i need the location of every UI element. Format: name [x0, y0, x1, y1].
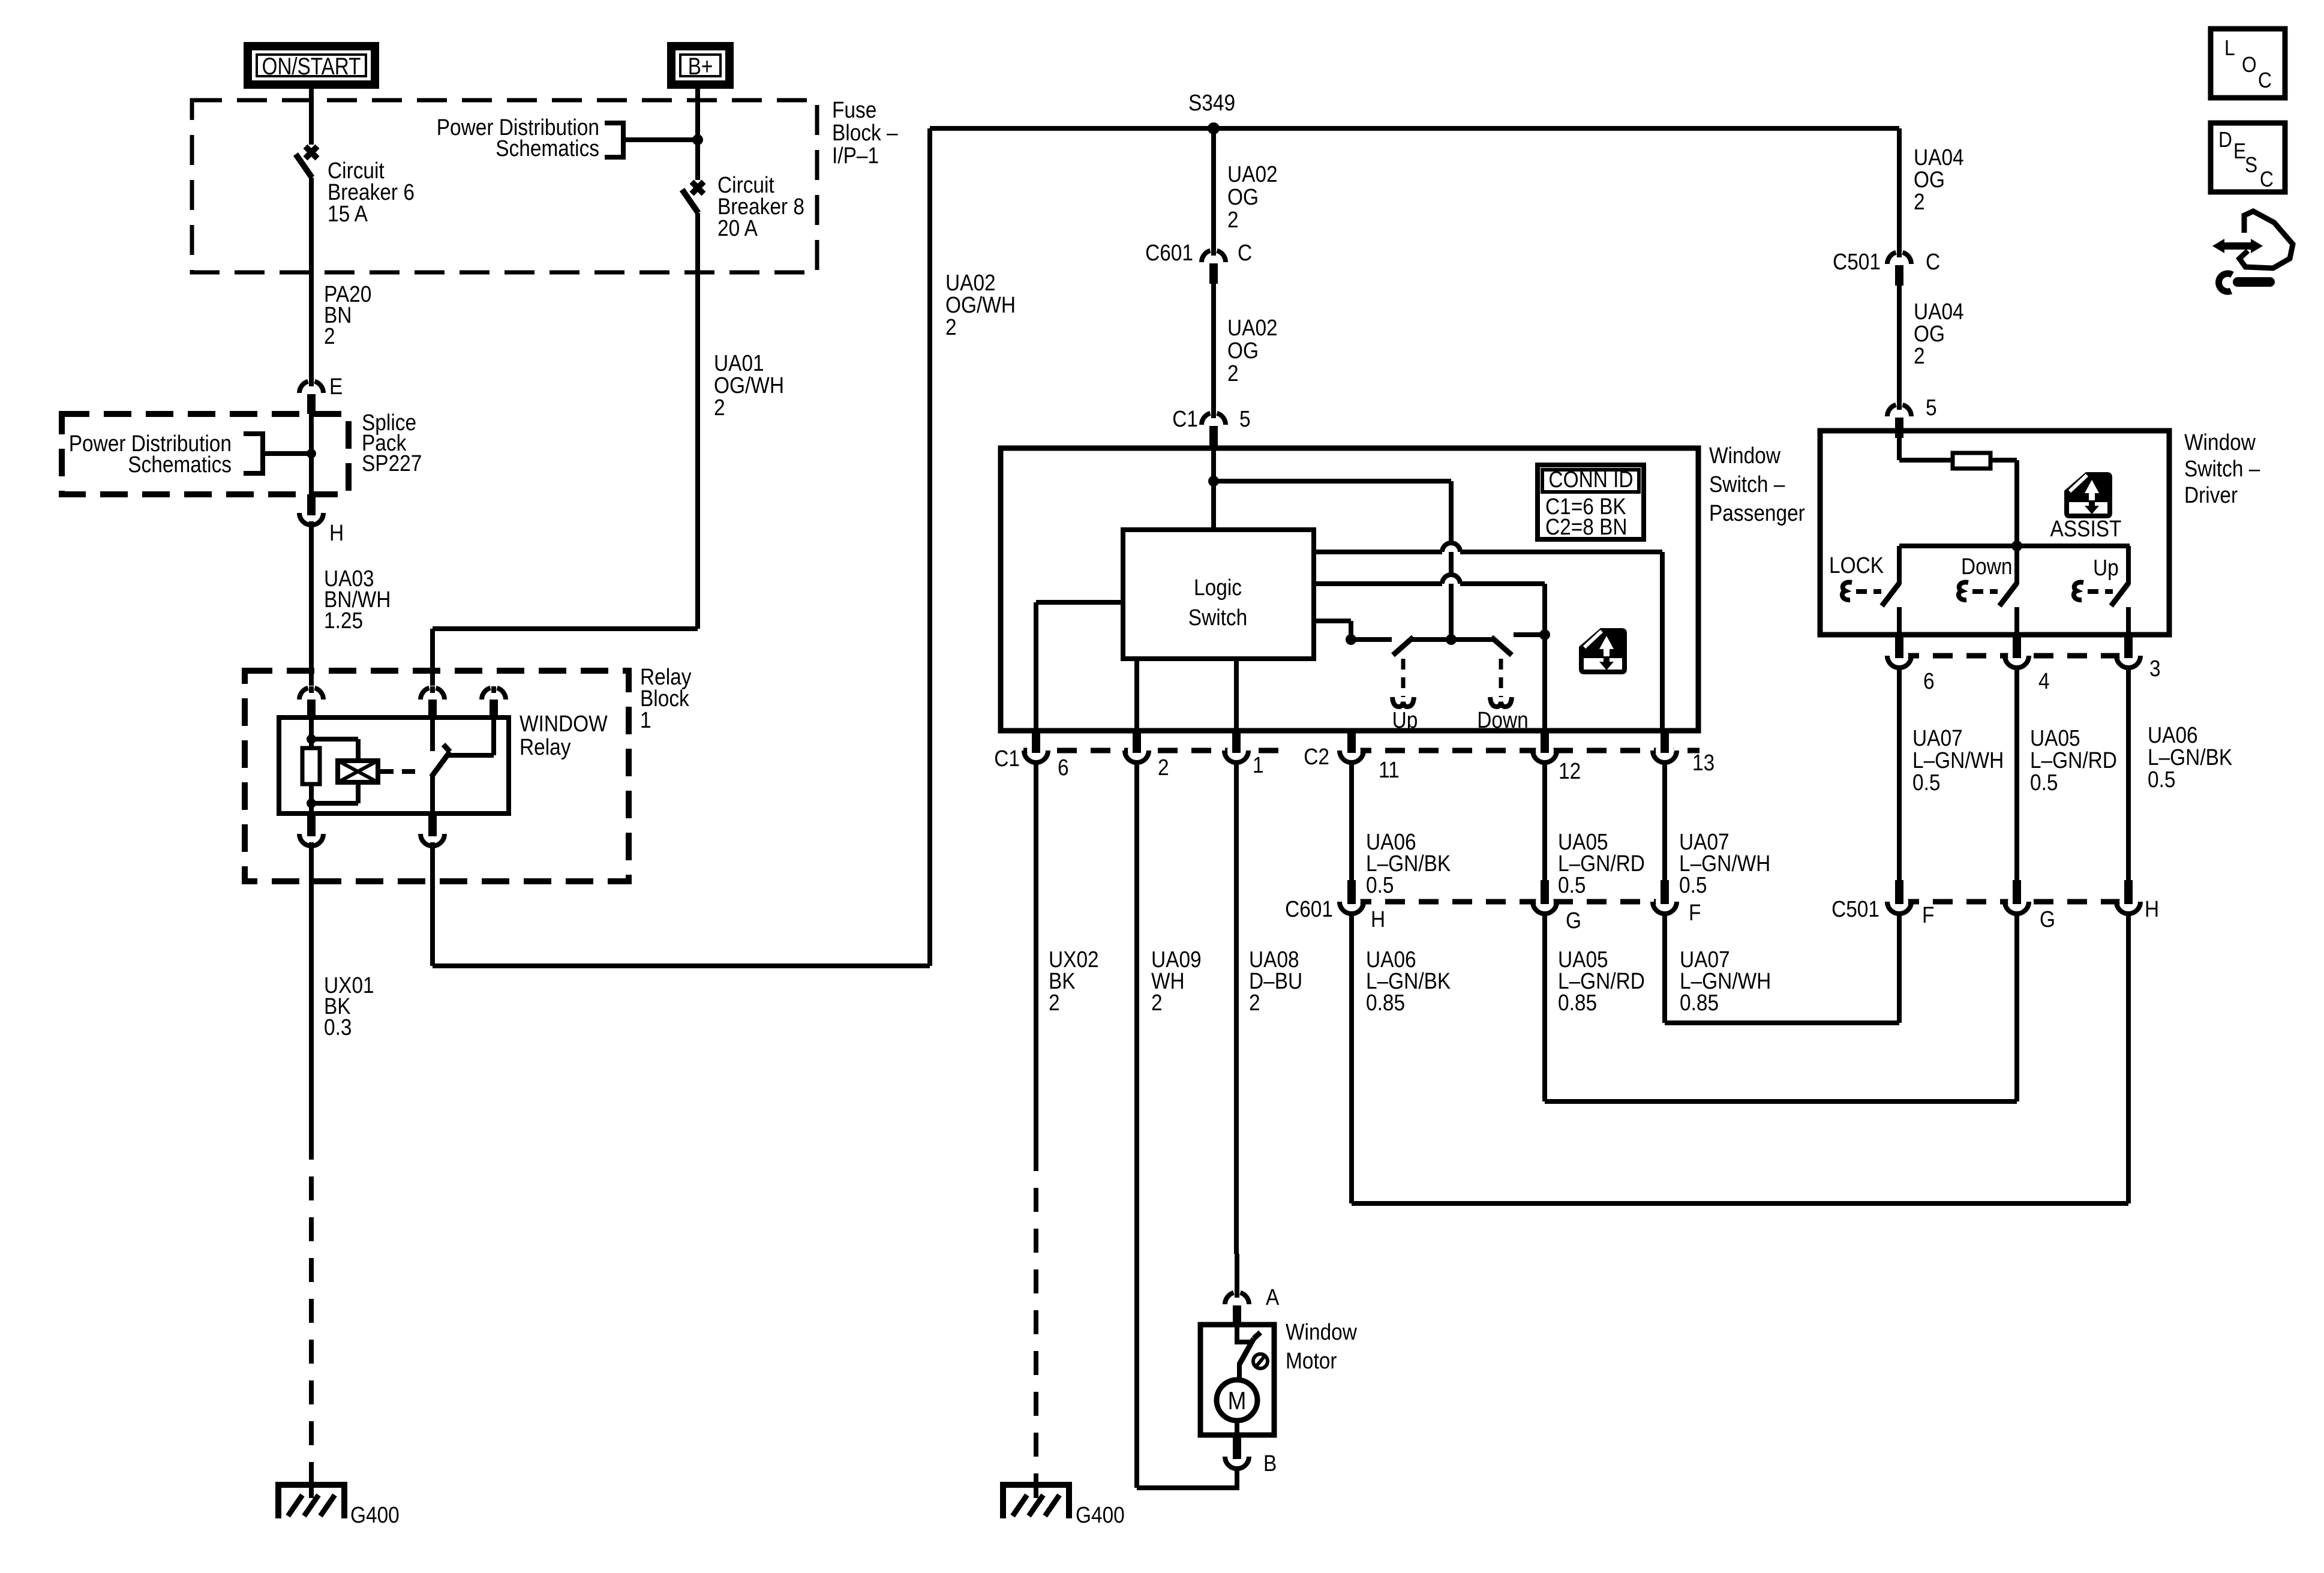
svg-text:Up: Up [1392, 707, 1418, 733]
svg-text:UA02: UA02 [1227, 161, 1278, 187]
svg-text:C2: C2 [1304, 744, 1329, 769]
svg-text:ASSIST: ASSIST [2050, 516, 2122, 541]
svg-text:0.5: 0.5 [2030, 770, 2058, 795]
svg-text:Passenger: Passenger [1709, 500, 1805, 526]
svg-text:Block –: Block – [832, 120, 898, 145]
svg-text:0.85: 0.85 [1366, 990, 1405, 1015]
svg-text:G: G [1566, 908, 1581, 933]
svg-text:ON/START: ON/START [262, 53, 361, 80]
svg-text:Schematics: Schematics [496, 136, 599, 161]
svg-text:5: 5 [1239, 406, 1251, 431]
svg-text:0.85: 0.85 [1680, 990, 1719, 1015]
svg-text:0.5: 0.5 [1912, 770, 1940, 795]
svg-text:0.5: 0.5 [2148, 767, 2175, 792]
svg-text:2: 2 [945, 314, 957, 340]
svg-text:Down: Down [1961, 554, 2012, 579]
svg-text:C1: C1 [994, 746, 1020, 771]
svg-text:SP227: SP227 [362, 451, 422, 476]
svg-text:C501: C501 [1831, 896, 1879, 921]
svg-text:1.25: 1.25 [324, 608, 363, 633]
svg-text:Window: Window [1286, 1319, 1357, 1344]
svg-text:C601: C601 [1145, 240, 1193, 265]
svg-text:M: M [1228, 1387, 1247, 1415]
svg-text:D: D [2218, 128, 2232, 152]
svg-text:2: 2 [714, 395, 725, 420]
svg-text:0.5: 0.5 [1679, 872, 1707, 897]
svg-text:WINDOW: WINDOW [520, 711, 608, 736]
svg-text:Relay: Relay [520, 734, 571, 760]
svg-text:Switch –: Switch – [2184, 456, 2260, 481]
svg-text:2: 2 [1914, 343, 1925, 368]
svg-text:0.85: 0.85 [1558, 990, 1597, 1015]
svg-text:C: C [1238, 240, 1252, 265]
svg-text:3: 3 [2149, 656, 2161, 681]
svg-text:LOCK: LOCK [1829, 553, 1884, 578]
svg-text:L: L [2224, 36, 2235, 60]
svg-text:Window: Window [2184, 430, 2256, 455]
svg-text:Switch –: Switch – [1709, 472, 1785, 497]
svg-text:G400: G400 [1076, 1502, 1125, 1527]
svg-text:5: 5 [1926, 395, 1937, 420]
svg-text:B+: B+ [688, 53, 713, 80]
svg-text:A: A [1266, 1284, 1279, 1310]
svg-text:F: F [1689, 900, 1701, 925]
svg-text:Schematics: Schematics [128, 452, 232, 477]
svg-text:H: H [1371, 906, 1385, 932]
svg-text:Motor: Motor [1286, 1348, 1337, 1373]
svg-text:0.3: 0.3 [324, 1014, 352, 1040]
svg-text:B: B [1263, 1451, 1277, 1476]
svg-text:UA02: UA02 [1227, 315, 1278, 340]
svg-text:I/P–1: I/P–1 [832, 143, 879, 168]
svg-text:Switch: Switch [1188, 605, 1247, 630]
svg-text:C: C [2258, 68, 2272, 92]
svg-text:2: 2 [1227, 361, 1239, 386]
svg-text:C601: C601 [1285, 896, 1333, 921]
svg-text:OG: OG [1227, 338, 1259, 363]
svg-text:1: 1 [640, 707, 651, 733]
svg-text:Driver: Driver [2184, 482, 2238, 508]
svg-text:2: 2 [1914, 189, 1925, 214]
svg-text:11: 11 [1379, 757, 1400, 782]
svg-text:S349: S349 [1188, 90, 1235, 115]
svg-text:4: 4 [2038, 668, 2050, 694]
svg-text:15 A: 15 A [328, 201, 368, 226]
svg-text:E: E [2233, 139, 2246, 163]
svg-text:2: 2 [1227, 207, 1239, 232]
svg-text:Logic: Logic [1194, 575, 1242, 600]
svg-text:Fuse: Fuse [832, 97, 876, 122]
svg-text:Down: Down [1477, 707, 1528, 733]
svg-text:2: 2 [324, 323, 335, 349]
svg-text:Up: Up [2093, 555, 2119, 580]
svg-text:6: 6 [1058, 755, 1069, 780]
svg-text:C: C [1926, 249, 1940, 274]
svg-text:S: S [2245, 153, 2257, 177]
svg-text:13: 13 [1692, 750, 1715, 775]
svg-text:2: 2 [1049, 990, 1060, 1015]
svg-text:0.5: 0.5 [1366, 872, 1394, 897]
svg-text:H: H [2145, 896, 2159, 921]
svg-text:2: 2 [1158, 755, 1169, 780]
svg-text:Window: Window [1709, 443, 1780, 468]
svg-text:20 A: 20 A [717, 215, 758, 241]
svg-text:F: F [1922, 902, 1934, 927]
svg-text:6: 6 [1923, 668, 1935, 694]
svg-text:0.5: 0.5 [1558, 872, 1586, 897]
svg-text:OG: OG [1227, 184, 1259, 209]
svg-text:CONN ID: CONN ID [1548, 467, 1633, 492]
svg-text:C1: C1 [1172, 406, 1198, 431]
svg-text:O: O [2242, 53, 2257, 77]
svg-text:12: 12 [1559, 758, 1581, 784]
svg-text:G: G [2040, 906, 2055, 932]
svg-text:2: 2 [1151, 990, 1163, 1015]
svg-text:1: 1 [1253, 752, 1264, 778]
svg-text:G400: G400 [350, 1502, 400, 1527]
svg-text:C: C [2260, 167, 2274, 191]
svg-text:C501: C501 [1833, 249, 1881, 274]
svg-text:2: 2 [1249, 990, 1260, 1015]
svg-text:H: H [329, 520, 344, 545]
svg-text:E: E [329, 374, 343, 399]
svg-text:C2=8 BN: C2=8 BN [1545, 514, 1628, 539]
